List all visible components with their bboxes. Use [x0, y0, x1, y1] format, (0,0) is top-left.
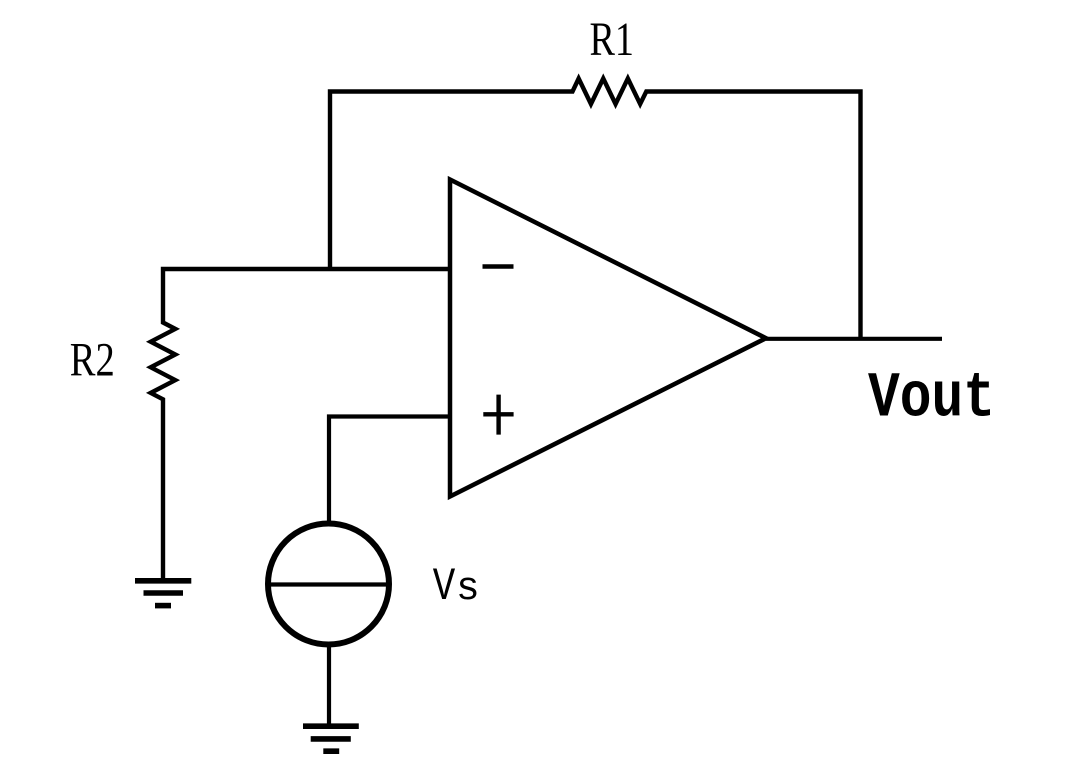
svg-text:R1: R1 [590, 14, 635, 66]
op-amp plus input symbol [483, 395, 513, 435]
svg-text:s: s [456, 566, 480, 611]
ground (under Vs) [303, 726, 359, 751]
wire: non-inverting input run (horizontal into plus input, down to source Vs) [329, 417, 450, 522]
svg-text:R2: R2 [70, 335, 115, 387]
voltage source Vs circle [268, 524, 389, 645]
wire: source Vs bottom lead to ground [327, 644, 331, 726]
svg-text:Vout: Vout [868, 364, 995, 436]
voltage source Vs horizontal diameter line [267, 582, 390, 586]
wire: node A (inverting) up to feedback top run, left of R1 [330, 92, 561, 270]
op-amp U1 triangle body [450, 180, 766, 497]
ground (under R2) [135, 581, 191, 606]
wire: output from op-amp apex to the right [766, 337, 942, 341]
svg-text:V: V [433, 560, 456, 613]
wire: R2 bottom lead to ground [161, 411, 165, 581]
wire: inverting input run (from op-amp minus input left to corner, down to R2) [163, 269, 450, 311]
resistor R1 [561, 79, 658, 105]
wire: feedback top run right of R1, down to output node B [658, 92, 861, 339]
op-amp minus input symbol [483, 264, 514, 269]
resistor R2 [151, 311, 176, 411]
